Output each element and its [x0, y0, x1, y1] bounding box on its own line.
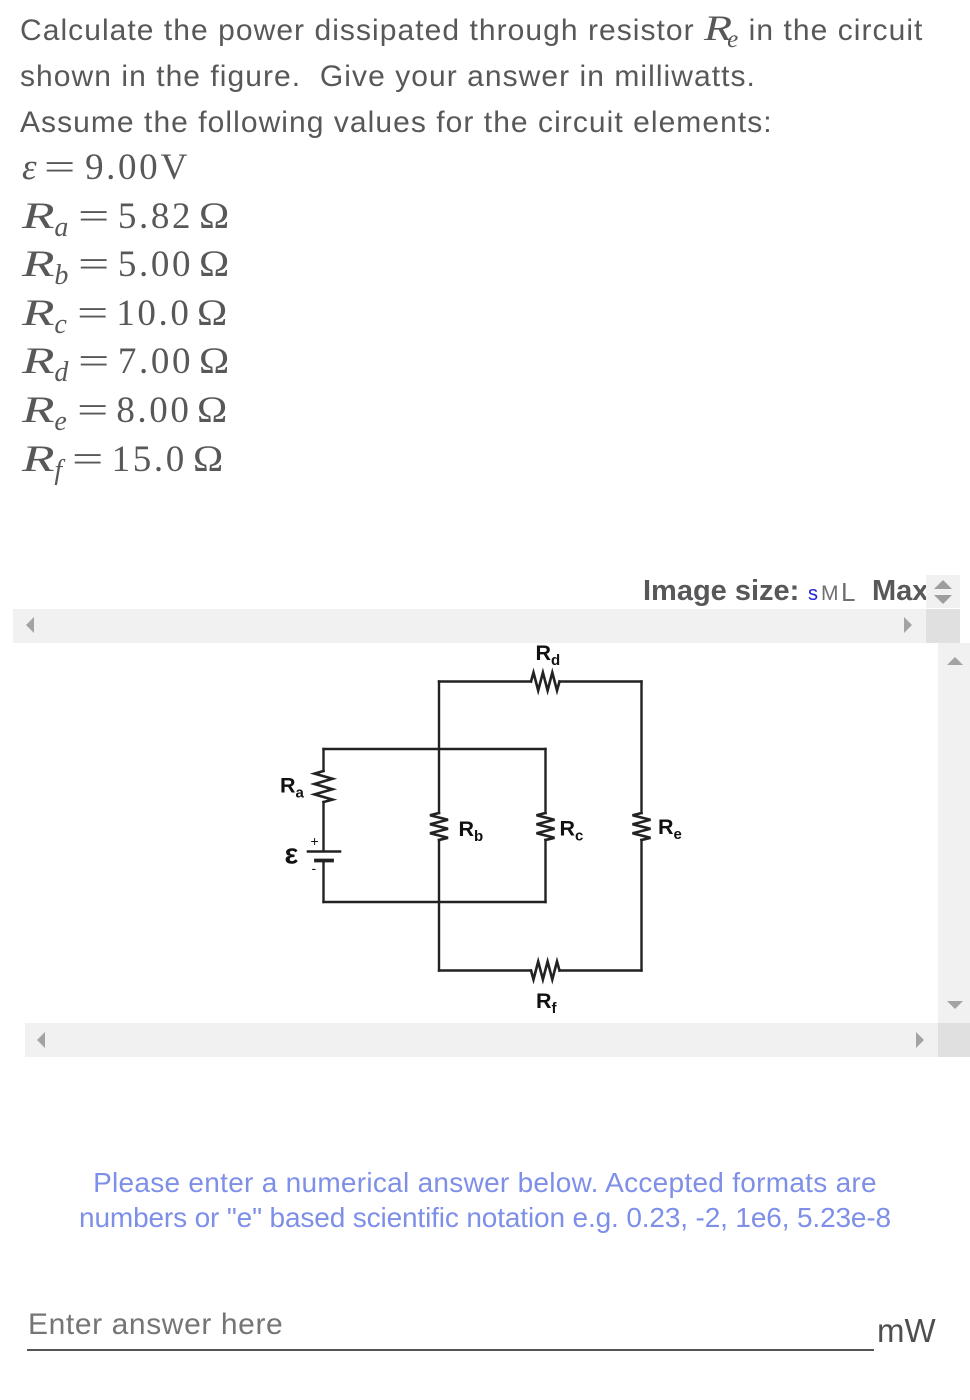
- wire battery to inner bottom: [322, 863, 324, 903]
- svg-text:ε: ε: [285, 839, 299, 871]
- svg-text:Re: Re: [658, 815, 682, 843]
- resistor Rd: [531, 673, 560, 691]
- wire top left (node between Rd and Rb column): [439, 680, 531, 682]
- top horizontal scrollbar: [13, 609, 926, 643]
- wire right vertical upper (Re branch): [640, 682, 642, 814]
- wire inner box bottom: [324, 901, 546, 903]
- Image size control: [643, 575, 963, 609]
- circuit figure: [13, 643, 938, 1023]
- resistor Rf: [531, 962, 560, 980]
- svg-text:+: +: [311, 833, 319, 849]
- math line Re: [22, 392, 226, 432]
- wire inner box top: [324, 748, 546, 750]
- wire bottom right: [560, 969, 642, 971]
- vertical scrollbar: [938, 643, 970, 1023]
- wire Rb column upper: [438, 682, 440, 814]
- math line Rd: [22, 343, 227, 383]
- bottom horizontal scrollbar: [25, 1023, 938, 1057]
- blue instruction text: [0, 1165, 970, 1235]
- svg-text:Ra: Ra: [280, 774, 305, 802]
- bottom-right corner: [938, 1023, 970, 1057]
- math line Ra: [22, 198, 227, 238]
- svg-text:Rc: Rc: [560, 817, 584, 845]
- input underline: [27, 1349, 874, 1351]
- top-right corner: [926, 609, 960, 643]
- resistor Rc: [537, 813, 555, 840]
- wire top right: [560, 680, 642, 682]
- resistor Ra: [315, 771, 333, 802]
- svg-text:Rf: Rf: [536, 989, 558, 1017]
- battery plate long (+): [308, 850, 340, 853]
- battery plate short (-): [316, 859, 332, 863]
- math line Rf: [22, 441, 221, 481]
- svg-text:Rd: Rd: [536, 643, 561, 669]
- math line epsilon: [22, 149, 188, 186]
- question text: [20, 8, 970, 146]
- wire Rc column lower: [544, 840, 546, 902]
- answer input placeholder: [28, 1308, 283, 1342]
- wire Rc column upper: [544, 749, 546, 813]
- wire Rb column lower: [438, 840, 440, 971]
- math line Rc: [22, 295, 226, 335]
- unit label mW: [877, 1312, 936, 1350]
- wire bottom left: [439, 969, 531, 971]
- svg-text:Rb: Rb: [459, 817, 484, 845]
- wire inner left to battery: [322, 802, 324, 850]
- wire inner left upper: [322, 749, 324, 771]
- resistor Re: [633, 813, 651, 840]
- svg-text:-: -: [312, 860, 317, 876]
- resistor Rb: [430, 813, 448, 840]
- wire right vertical lower: [640, 840, 642, 971]
- spinner box: [926, 575, 960, 608]
- math line Rb: [22, 246, 227, 286]
